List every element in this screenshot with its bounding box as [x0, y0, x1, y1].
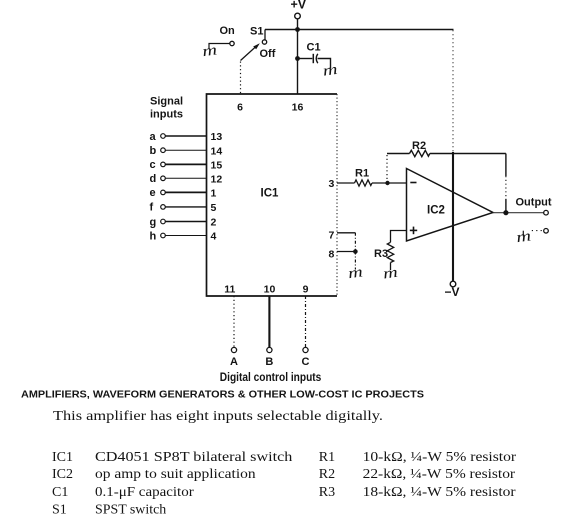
svg-text:C1: C1: [307, 42, 321, 54]
wire R2 down to output: solid/dotted/solid: [505, 154, 507, 177]
supply wire through op-amp to -V: [452, 152, 454, 281]
wire pin 10 (solid): [268, 296, 270, 347]
svg-text:f: f: [150, 202, 154, 214]
svg-text:A: A: [230, 356, 238, 368]
svg-text:IC2: IC2: [427, 205, 445, 217]
wire pin 11 (dotted): [233, 296, 235, 347]
svg-text:16: 16: [292, 102, 304, 114]
svg-text:B: B: [265, 356, 273, 368]
svg-text:1: 1: [211, 188, 217, 200]
svg-text:14: 14: [211, 145, 223, 157]
resistor R3: [387, 242, 393, 262]
svg-text:d: d: [150, 173, 157, 185]
switch S1 contact: [262, 40, 266, 44]
svg-text:m: m: [201, 41, 218, 60]
svg-text:CD4051 SP8T bilateral switch: CD4051 SP8T bilateral switch: [95, 450, 292, 465]
junction C1 tap: [295, 56, 300, 61]
wire S1 to rail: [264, 30, 266, 40]
wire pin6 dotted: [240, 62, 242, 94]
svg-text:11: 11: [224, 284, 235, 296]
svg-text:8: 8: [329, 248, 335, 260]
svg-text:g: g: [150, 216, 157, 228]
resistor R1: [355, 180, 373, 186]
wire C1 to ground: [318, 59, 331, 69]
IC U1 CD4051 body: [207, 94, 338, 296]
svg-text:18-kΩ, ¼-W 5% resistor: 18-kΩ, ¼-W 5% resistor: [363, 485, 516, 500]
svg-text:5: 5: [211, 202, 217, 214]
svg-text:Signal: Signal: [150, 96, 183, 108]
svg-text:4: 4: [211, 231, 217, 243]
wire top rail: [265, 29, 454, 31]
contact On: [230, 41, 234, 45]
svg-text:13: 13: [211, 131, 223, 143]
svg-text:Output: Output: [516, 197, 552, 209]
wire R2 right: [430, 153, 506, 155]
terminal Output: [544, 210, 549, 215]
svg-text:10-kΩ, ¼-W 5% resistor: 10-kΩ, ¼-W 5% resistor: [363, 450, 517, 465]
resistor R2: [410, 150, 430, 156]
svg-text:22-kΩ, ¼-W 5% resistor: 22-kΩ, ¼-W 5% resistor: [363, 467, 516, 482]
svg-text:inputs: inputs: [150, 109, 183, 121]
wire R1 to op-amp inverting input: [372, 182, 407, 184]
wire +V terminal to rail: [297, 19, 299, 30]
svg-text:m: m: [382, 263, 399, 282]
svg-text:C1: C1: [52, 485, 68, 500]
svg-text:m: m: [515, 227, 532, 246]
svg-text:IC1: IC1: [52, 450, 73, 465]
svg-text:IC2: IC2: [52, 467, 73, 482]
svg-text:IC1: IC1: [261, 188, 280, 200]
terminal output ground: [544, 229, 549, 234]
svg-text:0.1-μF capacitor: 0.1-μF capacitor: [95, 485, 194, 500]
supply wire +V down (dotted above R2): [452, 30, 454, 152]
svg-text:C: C: [302, 356, 310, 368]
op-amp inverting tick: [410, 182, 416, 184]
terminal C: [303, 347, 308, 352]
junction rail/+V: [295, 27, 300, 32]
wire pin 7: [337, 232, 355, 234]
wire op-amp output: [493, 212, 544, 214]
svg-text:3: 3: [329, 178, 335, 190]
wire R2 left: [387, 153, 410, 155]
junction R1/R2: [385, 181, 389, 185]
svg-text:m: m: [322, 60, 339, 79]
terminal B: [267, 347, 272, 352]
wire junction up to R2 (dash-dot): [386, 155, 388, 181]
capacitor C1: [313, 54, 318, 63]
svg-text:−V: −V: [445, 285, 460, 299]
switch S1 wiper arm: [241, 46, 257, 61]
terminal -V: [450, 281, 456, 287]
IC U1 right edge (dotted): [336, 94, 338, 296]
svg-text:Off: Off: [260, 48, 276, 60]
svg-text:b: b: [150, 145, 157, 157]
svg-text:R1: R1: [355, 168, 369, 180]
junction pins 7/8: [353, 249, 358, 254]
wire R3 to ground: [390, 263, 392, 271]
svg-text:m: m: [347, 263, 364, 282]
op-amp non-inverting plus: [410, 227, 417, 235]
ground (output): [522, 231, 524, 237]
svg-text:On: On: [220, 25, 236, 37]
wire On contact to ground: [209, 44, 230, 49]
svg-text:S1: S1: [250, 26, 263, 38]
svg-text:+V: +V: [291, 0, 307, 12]
op-amp U2 triangle: [407, 169, 494, 242]
terminal A: [231, 347, 236, 352]
svg-text:This amplifier has eight input: This amplifier has eight inputs selectab…: [53, 409, 383, 424]
svg-text:c: c: [150, 159, 156, 171]
wire pin 8: [337, 251, 355, 253]
terminal +V: [295, 13, 301, 19]
svg-text:h: h: [150, 230, 157, 242]
wire pin 3 to R1: [337, 182, 355, 184]
svg-text:2: 2: [211, 217, 217, 229]
svg-text:S1: S1: [52, 503, 67, 518]
svg-text:AMPLIFIERS, WAVEFORM GENERATOR: AMPLIFIERS, WAVEFORM GENERATORS & OTHER …: [21, 390, 425, 401]
svg-text:op amp to suit application: op amp to suit application: [95, 467, 256, 482]
switch S1 arrowhead: [253, 43, 260, 49]
wire output ground (dotted): [530, 230, 542, 232]
junction output: [503, 210, 508, 215]
wire pin 9 (dash-dot): [305, 296, 307, 347]
svg-text:SPST switch: SPST switch: [95, 503, 166, 518]
svg-text:9: 9: [303, 284, 309, 296]
wire pins 7/8 to ground (dash-dot): [354, 252, 356, 270]
wire +V down to pin 16: [297, 30, 299, 94]
svg-text:7: 7: [329, 229, 335, 241]
svg-text:6: 6: [237, 102, 243, 114]
svg-text:R3: R3: [374, 248, 388, 260]
svg-text:Digital control inputs: Digital control inputs: [220, 372, 321, 384]
wire junction to C1: [298, 58, 313, 60]
svg-text:15: 15: [211, 160, 223, 172]
svg-text:a: a: [150, 131, 157, 143]
svg-text:R2: R2: [319, 467, 335, 482]
svg-text:R3: R3: [319, 485, 335, 500]
wire R3 to op-amp non-inverting input: [391, 231, 407, 243]
svg-text:12: 12: [211, 174, 223, 186]
svg-text:e: e: [150, 187, 156, 199]
svg-text:R1: R1: [319, 450, 335, 465]
svg-text:10: 10: [264, 284, 276, 296]
wire pin 7 down (dash-dot): [354, 233, 356, 250]
